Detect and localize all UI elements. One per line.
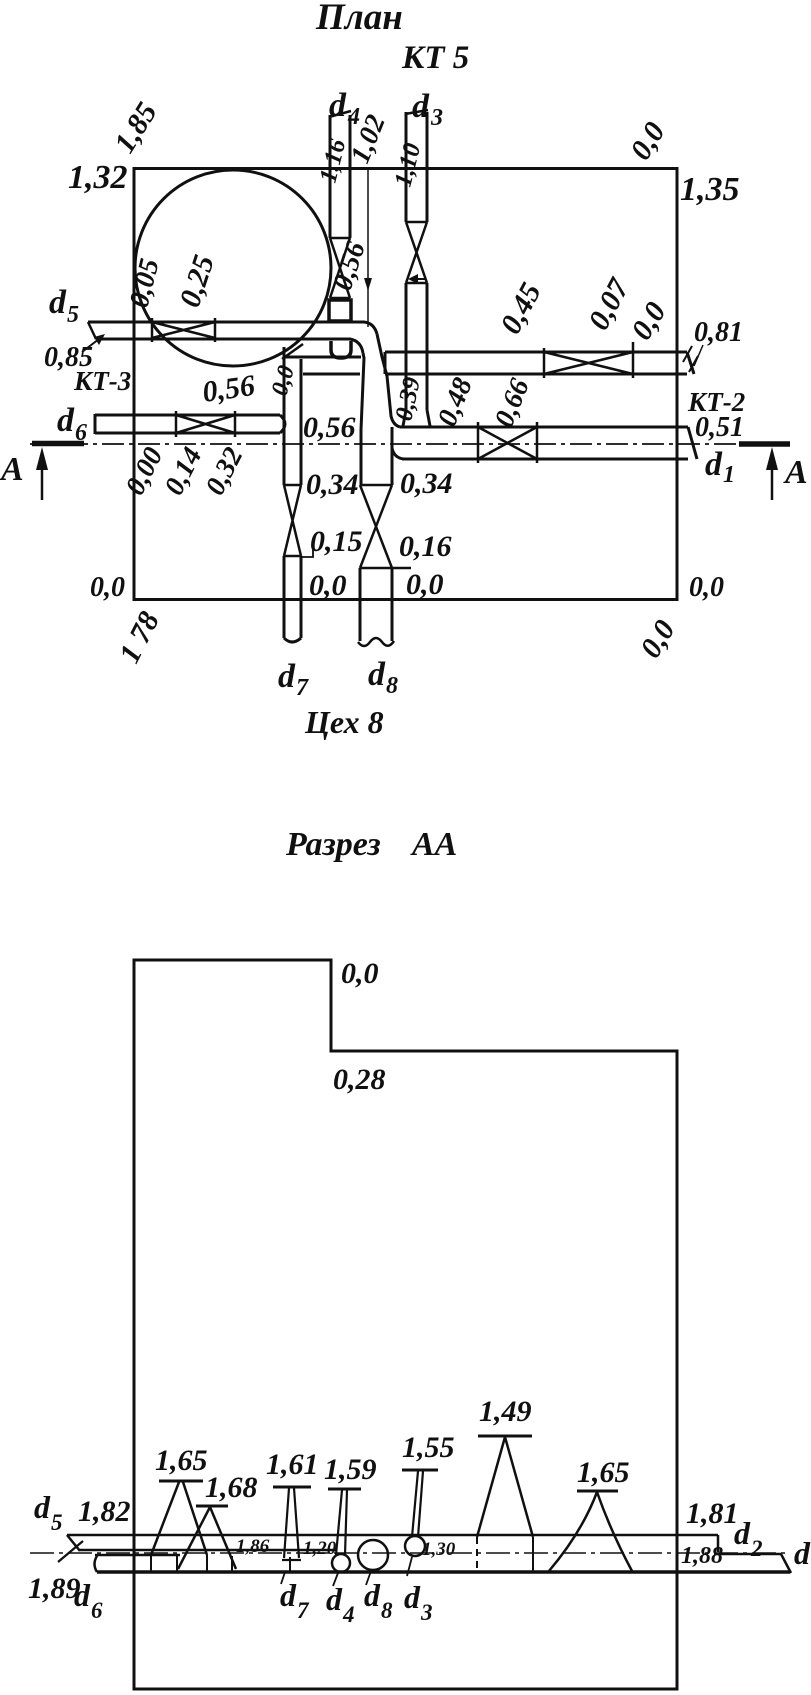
- leader d7: [281, 1572, 285, 1584]
- hydrant T3 legs: [477, 1437, 533, 1537]
- svg-text:0,0: 0,0: [90, 572, 125, 603]
- svg-text:3: 3: [420, 1600, 433, 1625]
- svg-text:d: d: [404, 1579, 421, 1615]
- leader line 1,02: [367, 170, 369, 327]
- section marker right thick line: [739, 441, 790, 447]
- svg-text:2: 2: [750, 1536, 763, 1561]
- pipe d7 horizontal branch: [285, 357, 361, 374]
- svg-text:5: 5: [51, 1510, 63, 1535]
- section marker left arrow: [41, 458, 44, 500]
- hydrant T1 legs: [151, 1482, 207, 1555]
- riser d3 stem: [412, 1471, 423, 1537]
- svg-text:1,81: 1,81: [686, 1497, 739, 1530]
- svg-text:0,0: 0,0: [341, 957, 379, 990]
- valve on main pipe 0,66: [478, 422, 537, 463]
- pipe centerline dash dot: [30, 1552, 790, 1554]
- svg-text:АА: АА: [410, 826, 457, 863]
- svg-text:6: 6: [91, 1598, 103, 1623]
- svg-text:d: d: [329, 87, 347, 124]
- valve on d8: [360, 485, 411, 568]
- hydrant T4 bar: [577, 1490, 618, 1493]
- leader d4: [333, 1573, 338, 1586]
- valve on KT-2 pipe: [544, 342, 633, 378]
- leader d3: [407, 1557, 412, 1576]
- svg-text:0,16: 0,16: [399, 530, 452, 563]
- svg-text:0,0: 0,0: [309, 569, 347, 602]
- pipe d6 right cap: [280, 415, 285, 433]
- svg-text:A: A: [0, 451, 24, 488]
- pipe d5 left slant end: [88, 322, 96, 339]
- svg-text:0,15: 0,15: [310, 525, 363, 558]
- riser d3 bar: [402, 1469, 438, 1472]
- svg-text:d: d: [705, 446, 723, 483]
- hydrant T1 bar: [159, 1480, 203, 1483]
- section marker left thick line: [32, 441, 84, 447]
- valve on d4: [330, 238, 350, 298]
- hydrant T4 legs: [549, 1492, 632, 1571]
- svg-text:d: d: [364, 1577, 381, 1613]
- svg-text:d: d: [57, 402, 75, 439]
- svg-text:5: 5: [67, 302, 79, 328]
- svg-text:d: d: [794, 1535, 811, 1571]
- hydrant T2 bar: [196, 1505, 228, 1508]
- svg-text:d: d: [734, 1515, 751, 1551]
- svg-text:1,65: 1,65: [155, 1444, 208, 1477]
- valve on d7: [284, 485, 301, 556]
- svg-text:1,49: 1,49: [479, 1395, 532, 1428]
- pipe d5 left slant: [67, 1535, 80, 1551]
- valve on d6: [176, 411, 235, 437]
- svg-text:1,82: 1,82: [78, 1495, 131, 1528]
- svg-text:A: A: [783, 454, 808, 491]
- riser d4 circle: [332, 1554, 350, 1572]
- pipe d8 bottom break: [358, 638, 394, 646]
- pipe d4 end cap box: [329, 300, 351, 321]
- pipe top line: [67, 1534, 718, 1537]
- leader 0,15: [301, 543, 313, 557]
- svg-text:0,34: 0,34: [306, 468, 359, 501]
- end tick: [683, 346, 698, 372]
- svg-text:1,61: 1,61: [266, 1448, 319, 1481]
- svg-text:1,89: 1,89: [28, 1572, 81, 1605]
- svg-text:Цех 8: Цех 8: [304, 704, 384, 740]
- svg-text:0,0: 0,0: [689, 572, 724, 603]
- pipe right step: [714, 1535, 791, 1573]
- svg-text:7: 7: [297, 1598, 310, 1623]
- junction arc to main pipe: [392, 430, 404, 459]
- svg-text:0,51: 0,51: [695, 412, 744, 443]
- pipe d3 vertical walls: [406, 112, 427, 410]
- flow arrow in d3: [414, 278, 425, 280]
- riser d7 bar: [273, 1486, 311, 1489]
- svg-text:1,59: 1,59: [324, 1453, 377, 1486]
- svg-text:1,65: 1,65: [577, 1456, 630, 1489]
- svg-text:3: 3: [430, 105, 443, 131]
- plan boundary rectangle: [134, 169, 677, 600]
- pipe d7 bottom cap: [284, 638, 301, 642]
- main pipe d1 slant end: [688, 427, 697, 459]
- pipe d7 vertical walls: [284, 347, 301, 638]
- section line A-A dash dot: [30, 443, 788, 445]
- svg-text:1,68: 1,68: [205, 1471, 258, 1504]
- leader 0,81: [694, 345, 703, 366]
- svg-text:d: d: [49, 284, 67, 321]
- tee stub U under d4: [331, 341, 351, 358]
- pipe d4 vertical walls: [330, 115, 350, 238]
- pipe to KT-2 0,81: [385, 352, 687, 374]
- riser d7 stem: [282, 1488, 301, 1560]
- pipe d5 bottom line: [80, 1549, 336, 1552]
- svg-text:d: d: [326, 1581, 343, 1617]
- block edge ticks: [151, 1555, 290, 1572]
- svg-text:4: 4: [342, 1602, 355, 1627]
- riser d4 bar: [328, 1488, 361, 1491]
- svg-text:КТ 5: КТ 5: [401, 40, 469, 76]
- svg-text:1,88: 1,88: [681, 1543, 723, 1569]
- pipe d3 bottom flare and cap: [402, 410, 431, 427]
- svg-text:0,28: 0,28: [333, 1063, 386, 1096]
- svg-text:8: 8: [386, 673, 398, 699]
- hydrant T3 bar: [478, 1435, 532, 1438]
- pipe d6: [95, 414, 280, 434]
- svg-text:0,0: 0,0: [406, 568, 444, 601]
- pipe d7 top slant cut: [282, 344, 303, 359]
- pipe d3 top slant cut: [405, 110, 428, 114]
- svg-text:1,30: 1,30: [422, 1539, 456, 1560]
- section marker right arrow: [771, 458, 774, 500]
- riser d3 circle: [405, 1536, 425, 1556]
- svg-text:8: 8: [381, 1598, 393, 1623]
- svg-text:7: 7: [296, 675, 309, 701]
- end slash marker left: [58, 1541, 83, 1562]
- pipe bottom thick line: [97, 1570, 790, 1574]
- leader arrow 0,85: [82, 339, 99, 352]
- leader d8: [366, 1571, 371, 1585]
- svg-text:1,20: 1,20: [303, 1538, 337, 1559]
- svg-text:0,81: 0,81: [694, 317, 743, 348]
- svg-text:План: План: [315, 0, 403, 38]
- svg-text:0,56: 0,56: [303, 411, 356, 444]
- svg-text:d: d: [74, 1577, 91, 1613]
- svg-text:1,35: 1,35: [680, 171, 740, 208]
- pipe d4 top slant cut: [329, 111, 351, 117]
- pipe d8 walls: [360, 427, 392, 641]
- KT-2 pipe right slant end: [687, 352, 694, 374]
- valve on d5: [152, 318, 215, 342]
- hydrant T3 feet: [476, 1537, 478, 1571]
- svg-text:1,55: 1,55: [402, 1431, 455, 1464]
- svg-text:0,34: 0,34: [400, 467, 453, 500]
- svg-text:d: d: [280, 1577, 297, 1613]
- building outline: [134, 960, 677, 1689]
- svg-text:1: 1: [723, 462, 735, 488]
- svg-text:d: d: [278, 658, 296, 695]
- svg-text:1,86: 1,86: [236, 1536, 270, 1557]
- tank circle: [135, 170, 331, 366]
- down pipe inner edge: [361, 353, 364, 430]
- pipe d5 top line: [88, 322, 377, 334]
- svg-text:Разрез: Разрез: [285, 826, 381, 863]
- main pipe d1: [400, 427, 688, 459]
- hydrant T2 legs: [178, 1507, 236, 1569]
- pipe d5 bottom line: [96, 339, 363, 353]
- valve on d3: [406, 222, 427, 283]
- svg-text:d: d: [34, 1489, 51, 1525]
- svg-text:1,32: 1,32: [68, 159, 128, 196]
- pipe d6 left end: [95, 1555, 181, 1572]
- down pipe outer edge: [377, 334, 400, 427]
- svg-text:КТ-3: КТ-3: [73, 366, 131, 396]
- svg-text:d: d: [368, 656, 386, 693]
- circle d8: [358, 1540, 388, 1570]
- riser d4 stem: [336, 1490, 347, 1555]
